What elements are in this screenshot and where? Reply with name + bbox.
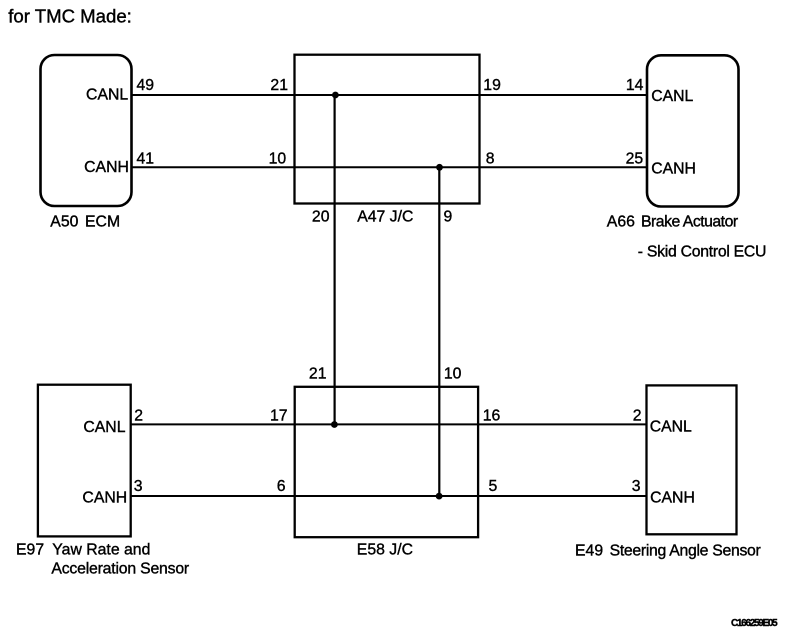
svg-text:10: 10 xyxy=(269,150,287,167)
wire vertical: A47 pin9 to E58 pin10 xyxy=(438,167,440,496)
svg-text:A66Brake Actuator: A66Brake Actuator xyxy=(607,214,738,231)
svg-text:CANH: CANH xyxy=(651,160,696,177)
junction block A47 J/C (rect) xyxy=(295,55,480,204)
svg-text:8: 8 xyxy=(486,150,495,167)
svg-text:5: 5 xyxy=(489,478,498,495)
connector A50 ECM (rounded box) xyxy=(41,55,132,206)
svg-text:9: 9 xyxy=(444,209,453,226)
svg-text:14: 14 xyxy=(626,77,644,94)
svg-text:CANL: CANL xyxy=(86,87,128,104)
svg-text:- Skid Control ECU: - Skid Control ECU xyxy=(638,243,766,260)
svg-text:49: 49 xyxy=(137,77,155,94)
junction dot at A47 CANH (pin 10/8 rail) xyxy=(436,164,443,171)
svg-text:CANH: CANH xyxy=(650,490,695,507)
svg-text:CANL: CANL xyxy=(651,88,693,105)
junction block E58 J/C (rect) xyxy=(295,387,478,537)
svg-text:E58 J/C: E58 J/C xyxy=(357,542,413,559)
wire CANH: A50 pin41 to A66 pin25 through A47 (10 to 8) xyxy=(132,166,648,168)
svg-text:17: 17 xyxy=(270,408,288,425)
wire CANL bottom: E97 pin2 to E49 pin2 through E58 (17 to 16) xyxy=(131,423,647,425)
svg-text:A50ECM: A50ECM xyxy=(50,213,120,230)
svg-text:C166259E05: C166259E05 xyxy=(731,618,778,629)
svg-text:41: 41 xyxy=(137,150,155,167)
connector A66 Brake Actuator - Skid Control ECU (rounded box) xyxy=(647,55,739,206)
svg-text:20: 20 xyxy=(312,209,330,226)
junction dot at E58 CANH (pin 6/5 rail) xyxy=(436,493,443,500)
svg-text:CANL: CANL xyxy=(83,419,125,436)
svg-text:16: 16 xyxy=(483,408,501,425)
connector E97 Yaw Rate and Acceleration Sensor (rect) xyxy=(38,385,131,537)
svg-text:3: 3 xyxy=(134,478,143,495)
svg-text:6: 6 xyxy=(277,478,286,495)
svg-text:2: 2 xyxy=(633,408,642,425)
svg-text:E49Steering Angle Sensor: E49Steering Angle Sensor xyxy=(575,543,761,560)
svg-text:for TMC Made:: for TMC Made: xyxy=(8,5,132,26)
svg-text:25: 25 xyxy=(626,150,644,167)
svg-text:CANL: CANL xyxy=(650,418,692,435)
svg-text:A47 J/C: A47 J/C xyxy=(357,209,413,226)
wire CANH bottom: E97 pin3 to E49 pin3 through E58 (6 to 5) xyxy=(131,495,647,497)
wire CANL: A50 pin49 to A66 pin14 through A47 (21 to 19) xyxy=(132,94,648,96)
svg-text:CANH: CANH xyxy=(84,159,129,176)
junction dot at A47 CANL (pin 21/19 rail) xyxy=(332,92,339,99)
svg-text:10: 10 xyxy=(444,366,462,383)
svg-text:19: 19 xyxy=(483,77,501,94)
junction dot at E58 CANL (pin 17/16 rail) xyxy=(331,421,338,428)
wire vertical: A47 pin20 to E58 pin21 xyxy=(334,95,336,424)
svg-text:3: 3 xyxy=(632,478,641,495)
svg-text:21: 21 xyxy=(270,77,288,94)
svg-text:CANH: CANH xyxy=(82,489,127,506)
svg-text:2: 2 xyxy=(134,408,143,425)
connector E49 Steering Angle Sensor (rect) xyxy=(647,385,737,534)
svg-text:21: 21 xyxy=(309,366,327,383)
